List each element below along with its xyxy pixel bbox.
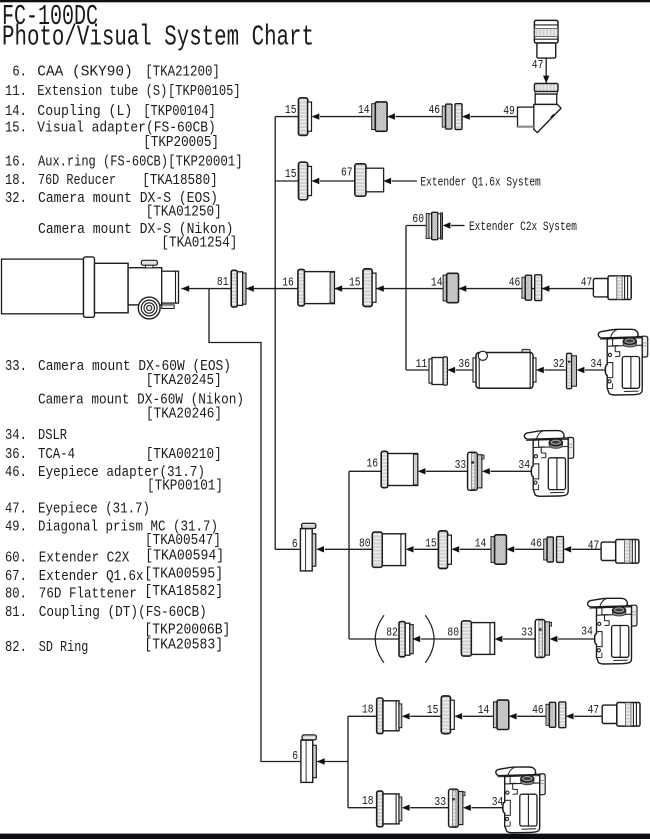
arrowhead G into 15	[451, 546, 459, 552]
svg-text:[TKP00104]: [TKP00104]	[143, 103, 216, 120]
telescope focus knob	[138, 297, 160, 319]
wire row A horizontal	[275, 116, 298, 118]
eyepiece adapter 46 (A)	[442, 104, 462, 130]
svg-text:80.: 80.	[5, 586, 27, 603]
wire main horizontal line	[181, 288, 593, 290]
svg-text:15: 15	[285, 168, 297, 181]
arrowhead D into 46	[542, 285, 550, 291]
wire G 15-14	[460, 548, 491, 550]
svg-text:33.: 33.	[5, 358, 27, 375]
76D reducer 18 (J)	[377, 791, 402, 827]
parts list	[5, 64, 244, 657]
coupling L 14 (D)	[443, 273, 458, 302]
wire B 15-67	[320, 180, 355, 182]
svg-text:11: 11	[416, 358, 428, 371]
wire B 67-text	[392, 180, 417, 182]
wire row I horizontal	[348, 715, 377, 717]
arrowhead A into 14	[387, 113, 395, 119]
svg-text:[TKA01254]: [TKA01254]	[161, 235, 237, 252]
svg-text:67: 67	[341, 167, 353, 180]
wire branch telescope-down jog	[209, 289, 300, 762]
svg-text:47: 47	[581, 276, 593, 289]
svg-text:Coupling (L): Coupling (L)	[37, 103, 132, 120]
svg-text:[TKA20245]: [TKA20245]	[146, 372, 222, 389]
svg-text:81: 81	[217, 276, 229, 289]
coupling L 14 (A)	[372, 102, 387, 131]
svg-text:18: 18	[362, 704, 374, 717]
svg-text:36: 36	[458, 358, 470, 371]
svg-text:[TKA21200]: [TKA21200]	[145, 64, 220, 81]
svg-text:[TKP20005]: [TKP20005]	[143, 134, 219, 151]
eyepiece 47 (top, vertical)	[534, 20, 558, 58]
arrowhead B into 15	[312, 178, 320, 184]
diagonal prism 49 body	[518, 84, 562, 133]
svg-text:15.: 15.	[5, 120, 27, 137]
svg-text:34: 34	[492, 796, 504, 809]
arrowhead D into 81	[246, 285, 254, 291]
svg-text:[TKA01250]: [TKA01250]	[146, 204, 222, 221]
svg-text:82: 82	[386, 626, 398, 639]
76D reducer 18 (I)	[377, 698, 402, 734]
arrowhead E into 11	[447, 367, 455, 373]
wire H 80-33	[503, 638, 535, 640]
svg-text:15: 15	[427, 704, 439, 717]
svg-text:6: 6	[292, 750, 298, 763]
telescope FC-100DC tube	[2, 257, 179, 317]
top border rule	[0, 0, 650, 2]
wire trunk vertical	[274, 117, 276, 550]
wire A 46-49	[470, 116, 517, 118]
visual adapter 15 (D)	[363, 269, 376, 307]
svg-text:[TKA00547]: [TKA00547]	[145, 532, 221, 549]
svg-text:[TKA18582]: [TKA18582]	[144, 583, 223, 600]
arrowhead H into 33	[550, 636, 558, 642]
camera mount DX-60W 33 (J)	[449, 789, 465, 827]
wire I 14-46	[517, 715, 546, 717]
svg-text:Extender C2x System: Extender C2x System	[469, 219, 577, 234]
bottom border bar	[0, 834, 650, 839]
arrowhead C into 60	[443, 222, 451, 228]
arrowhead G into 14	[506, 546, 514, 552]
svg-text:16.: 16.	[5, 154, 27, 171]
arrowhead J into 18	[402, 805, 410, 811]
eyepiece adapter 46 (G)	[544, 537, 564, 563]
arrowhead into telescope	[181, 285, 189, 291]
wire G 6-80	[325, 548, 373, 550]
svg-text:[TKA20246]: [TKA20246]	[146, 406, 222, 423]
wire A 14-46	[396, 116, 443, 118]
wire J 18-33	[410, 807, 448, 809]
wire 47 down to 49	[545, 58, 547, 83]
arrowhead A into 46	[462, 113, 470, 119]
svg-text:16: 16	[367, 457, 379, 470]
svg-text:46: 46	[532, 704, 544, 717]
svg-text:33: 33	[455, 459, 467, 472]
arrowhead E into 32	[577, 367, 585, 373]
camera mount DX-60W 33 (H)	[535, 620, 551, 658]
eyepiece 47 (D)	[593, 276, 631, 300]
76D flattener 80 (H)	[461, 621, 494, 656]
wire I 46-47	[574, 715, 602, 717]
svg-text:[TKA18580]: [TKA18580]	[142, 172, 218, 189]
wire bottom branch vertical	[347, 716, 349, 807]
svg-text:14: 14	[431, 276, 443, 289]
svg-text:18.: 18.	[5, 172, 27, 189]
extender Q1.6x 67 (B)	[355, 164, 384, 196]
eyepiece adapter 46 (D)	[522, 275, 542, 301]
arrowhead D into 14	[459, 285, 467, 291]
svg-text:14.: 14.	[5, 103, 27, 120]
wire row C horizontal	[406, 225, 426, 227]
wire row F/H branch vertical	[348, 471, 350, 639]
svg-text:16: 16	[282, 276, 294, 289]
svg-text:15: 15	[285, 104, 297, 117]
arrowhead H into 82	[412, 636, 420, 642]
coupling DT 81 (D)	[231, 270, 246, 307]
arrowhead D into 15	[376, 285, 384, 291]
wire I 15-14	[463, 715, 494, 717]
svg-text:47: 47	[588, 539, 600, 552]
DSLR camera 34 (E)	[598, 329, 647, 395]
parenthesis right of 82	[425, 615, 434, 663]
camera mount DX-60W 33 (F)	[468, 452, 484, 490]
svg-text:76D Reducer: 76D Reducer	[38, 172, 116, 189]
arrowhead into 49 down	[543, 76, 549, 84]
svg-text:DSLR: DSLR	[38, 427, 67, 444]
svg-text:6: 6	[292, 538, 298, 551]
arrowhead F into 16	[418, 468, 426, 474]
arrowhead F into 33	[482, 468, 490, 474]
svg-text:49: 49	[503, 105, 515, 118]
visual adapter 15 (B)	[299, 162, 312, 200]
eyepiece adapter 46 (I)	[546, 702, 566, 728]
svg-text:6.: 6.	[12, 64, 27, 81]
wire I 18-15	[410, 715, 441, 717]
svg-text:14: 14	[358, 104, 370, 117]
DSLR camera 34 (F)	[524, 431, 573, 497]
wire row E horizontal	[406, 369, 429, 371]
wire row F horizontal	[349, 470, 381, 472]
DSLR camera 34 (H)	[588, 598, 637, 664]
svg-text:80: 80	[447, 626, 459, 639]
svg-text:Aux.ring (FS-60CB): Aux.ring (FS-60CB)	[38, 154, 168, 171]
SD ring 82 (H)	[399, 622, 413, 657]
coupling L 14 (G)	[491, 535, 506, 564]
TCA-4 36 (E)	[473, 349, 536, 388]
wire J 33-cam	[471, 807, 504, 809]
svg-text:Coupling (DT)(FS-60CB): Coupling (DT)(FS-60CB)	[39, 604, 207, 621]
camera mount DX-S 32 (E)	[567, 353, 577, 388]
arrowhead I into 46	[566, 713, 574, 719]
svg-text:46: 46	[429, 104, 441, 117]
visual adapter 15 (G)	[438, 531, 451, 569]
svg-text:47: 47	[588, 704, 600, 717]
wire row J horizontal	[348, 807, 377, 809]
wire E 36-32	[544, 369, 566, 371]
arrowhead H into 80	[495, 636, 503, 642]
wire E 11-36	[456, 369, 473, 371]
wire F 16-33	[426, 470, 468, 472]
arrowhead D into 16	[334, 285, 342, 291]
wire G 80-15	[414, 548, 438, 550]
svg-text:33: 33	[521, 626, 533, 639]
arrowhead I into 14	[509, 713, 517, 719]
arrowhead I into 18	[402, 713, 410, 719]
svg-text:34.: 34.	[5, 427, 27, 444]
svg-text:34: 34	[590, 358, 602, 371]
svg-text:67.: 67.	[5, 568, 27, 585]
arrowhead B into 67	[383, 178, 391, 184]
svg-text:81.: 81.	[5, 604, 27, 621]
wire A 15-14	[320, 116, 372, 118]
visual adapter 15 (I)	[441, 696, 454, 734]
svg-text:[TKA00210]: [TKA00210]	[146, 446, 222, 463]
svg-text:46: 46	[509, 276, 521, 289]
svg-text:18: 18	[362, 795, 374, 808]
aux ring 16 (D)	[298, 269, 335, 305]
svg-text:15: 15	[425, 538, 437, 551]
svg-text:47.: 47.	[5, 501, 27, 518]
svg-text:TCA-4: TCA-4	[38, 446, 75, 463]
svg-text:SD Ring: SD Ring	[39, 639, 89, 656]
svg-text:34: 34	[581, 625, 593, 638]
svg-text:14: 14	[478, 704, 490, 717]
svg-text:Photo/Visual System Chart: Photo/Visual System Chart	[2, 21, 314, 54]
svg-text:Extension tube (S): Extension tube (S)	[37, 83, 167, 100]
svg-text:Extender C2X: Extender C2X	[39, 550, 130, 567]
wire bottom 6 to branch	[316, 761, 348, 763]
extension tube 11 (E)	[429, 357, 447, 385]
visual adapter 15 (A)	[299, 98, 312, 136]
wire row H horizontal	[349, 638, 399, 640]
76D flattener 80 (G)	[372, 532, 405, 567]
arrowhead into bottom 6	[317, 758, 325, 764]
wire C 60-text	[451, 225, 465, 227]
eyepiece 47 (I)	[602, 703, 640, 727]
wire E 32-cam	[585, 369, 607, 371]
arrowhead E into 36	[536, 367, 544, 373]
svg-text:CAA (SKY90): CAA (SKY90)	[37, 64, 133, 81]
svg-text:60.: 60.	[5, 550, 27, 567]
svg-text:82.: 82.	[5, 639, 27, 656]
arrowhead J into 33	[463, 805, 471, 811]
svg-text:[TKP00101]: [TKP00101]	[147, 478, 223, 495]
arrowhead G into 80	[406, 546, 414, 552]
wire H 33-cam	[558, 638, 596, 640]
svg-text:76D Flattener: 76D Flattener	[39, 586, 137, 603]
svg-text:34: 34	[518, 459, 530, 472]
DSLR camera 34 (J)	[496, 767, 545, 833]
svg-text:47: 47	[532, 59, 544, 72]
wire row G horizontal	[275, 548, 300, 550]
wire G 46-47	[572, 548, 601, 550]
arrowhead A into 15	[312, 113, 320, 119]
wire extender branch vertical	[405, 226, 407, 371]
parenthesis left of 82	[375, 615, 384, 663]
svg-text:46.: 46.	[5, 464, 27, 481]
svg-text:33: 33	[434, 796, 446, 809]
svg-text:Extender Q1.6x: Extender Q1.6x	[39, 568, 144, 585]
arrowhead I into 15	[454, 713, 462, 719]
CAA 6 (G)	[300, 523, 315, 571]
svg-text:Eyepiece (31.7): Eyepiece (31.7)	[38, 501, 150, 518]
svg-text:32: 32	[553, 358, 565, 371]
svg-text:80: 80	[359, 538, 371, 551]
svg-text:14: 14	[475, 538, 487, 551]
svg-text:[TKA00594]: [TKA00594]	[145, 548, 224, 565]
svg-text:32.: 32.	[5, 190, 27, 207]
svg-text:[TKP00105]: [TKP00105]	[168, 83, 241, 100]
arrowhead G into 6	[316, 546, 324, 552]
wire F 33-cam	[490, 470, 532, 472]
svg-text:15: 15	[349, 276, 361, 289]
wire row B horizontal	[275, 180, 298, 182]
coupling L 14 (I)	[493, 700, 508, 729]
svg-text:49.: 49.	[5, 519, 27, 536]
extender C2x 60 (C)	[426, 212, 442, 239]
svg-text:[TKA20583]: [TKA20583]	[144, 637, 223, 654]
svg-text:46: 46	[530, 538, 542, 551]
arrowhead G into 46	[563, 546, 571, 552]
svg-text:36.: 36.	[5, 446, 27, 463]
CAA 6 (bottom)	[301, 735, 316, 783]
svg-text:Extender Q1.6x System: Extender Q1.6x System	[420, 175, 541, 190]
wire H 82-80	[421, 638, 462, 640]
svg-text:60: 60	[412, 213, 424, 226]
svg-text:11.: 11.	[5, 83, 27, 100]
svg-text:[TKP20001]: [TKP20001]	[168, 154, 243, 171]
eyepiece 47 (G)	[601, 540, 639, 564]
aux ring 16 (F)	[381, 451, 417, 487]
wire G 14-46	[515, 548, 544, 550]
svg-text:[TKA00595]: [TKA00595]	[144, 566, 223, 583]
